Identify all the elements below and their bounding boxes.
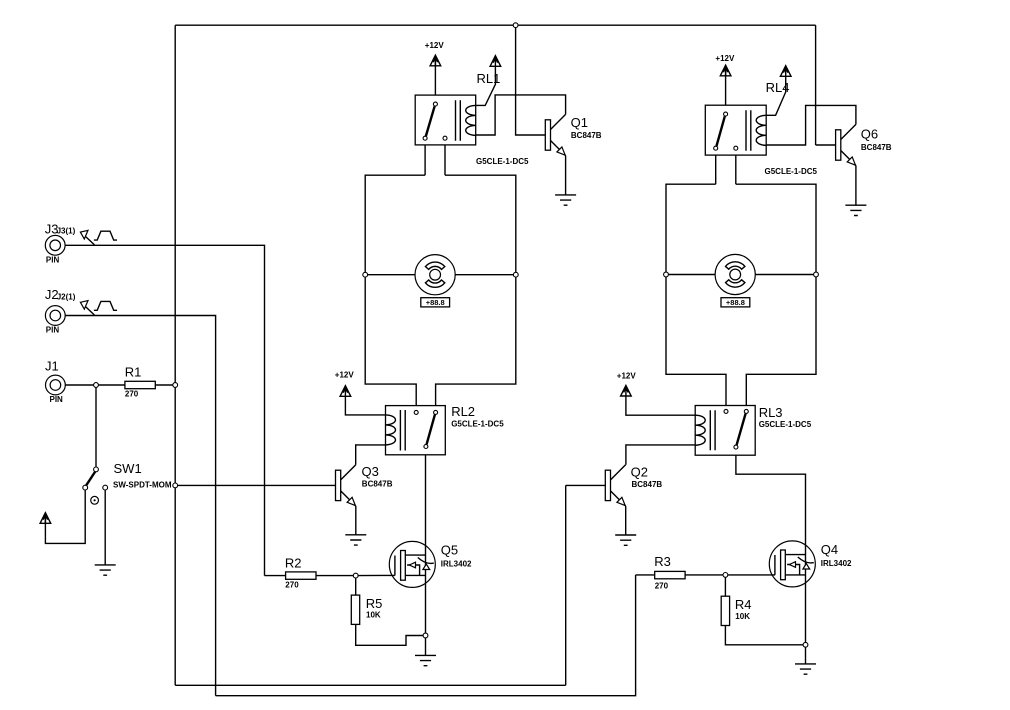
label Q4 xyxy=(821,542,852,568)
svg-text:+12V: +12V xyxy=(715,54,735,63)
wire R1 right lead xyxy=(155,384,175,386)
probe marker J2 pulse xyxy=(80,301,117,315)
ground Q3 emitter xyxy=(345,535,366,545)
resistor R2 270 xyxy=(285,555,316,589)
ground Q2 emitter xyxy=(615,535,636,545)
svg-text:Q5: Q5 xyxy=(441,543,458,558)
svg-text:J1: J1 xyxy=(45,359,59,374)
wire RL1 pole A stub xyxy=(424,141,426,176)
svg-text:+88.8: +88.8 xyxy=(426,298,445,307)
transistor Q3 BC847B xyxy=(336,464,393,506)
svg-text:+12V: +12V xyxy=(617,371,637,380)
svg-text:Q1: Q1 xyxy=(571,115,588,130)
svg-text:+88.8: +88.8 xyxy=(726,298,745,307)
wire RL2 coil to +12V xyxy=(345,396,385,415)
wire motor1 left branch xyxy=(365,175,425,410)
ground Q4 source xyxy=(795,664,816,674)
wire SW1 throw to power xyxy=(45,490,85,544)
resistor R1 270 xyxy=(125,364,156,398)
relay RL4 G5CLE-1-DC5 xyxy=(705,80,817,176)
wire Q1 emitter to ground xyxy=(565,156,567,195)
wire Q2 emitter to ground xyxy=(625,506,627,535)
power +12V arrow RL1 pole xyxy=(430,55,441,66)
wire J1 node to SW1 xyxy=(95,385,97,467)
svg-text:RL4: RL4 xyxy=(766,80,790,95)
svg-text:10K: 10K xyxy=(735,612,750,621)
wire R3 left lead xyxy=(636,574,655,576)
wire RL1 coil to VCC xyxy=(476,66,496,105)
wire RL1 pole to +12V xyxy=(434,56,436,102)
svg-text:270: 270 xyxy=(655,582,669,591)
wire RL2 coil to Q3 collector xyxy=(356,445,386,465)
wire J3 to R2 xyxy=(65,245,264,575)
power arrow RL1 coil xyxy=(490,56,501,67)
svg-text:SW1: SW1 xyxy=(114,461,142,476)
node motor1 right xyxy=(513,272,518,277)
wire J2 drop xyxy=(65,316,215,696)
wire Q6 base drop xyxy=(815,25,817,145)
node Q4 source / R4 xyxy=(803,642,808,647)
wire bottom bus B xyxy=(216,575,636,696)
ground SW1 xyxy=(95,565,116,575)
switch SW1 SW-SPDT-MOM xyxy=(83,461,172,504)
wire R5 bottom to Q5 source xyxy=(356,624,426,645)
wire R3 right lead xyxy=(685,574,725,576)
wire Q5 gate xyxy=(356,574,395,576)
wire motor1 right stub xyxy=(455,274,516,276)
svg-text:BC847B: BC847B xyxy=(362,480,393,489)
svg-text:IRL3402: IRL3402 xyxy=(441,559,472,568)
wire left bus vertical xyxy=(174,25,176,685)
wire motor1 left stub xyxy=(365,274,415,276)
svg-text:10K: 10K xyxy=(366,610,381,619)
svg-text:R2: R2 xyxy=(285,555,302,570)
transistor Q5 IRL3402 mosfet xyxy=(389,541,435,587)
wire motor2 left branch xyxy=(666,184,726,409)
connector J3 PIN xyxy=(45,222,76,265)
svg-text:Q2: Q2 xyxy=(631,465,648,480)
transistor Q4 IRL3402 mosfet xyxy=(769,541,815,587)
node motor2 left xyxy=(664,272,669,277)
power +12V arrow RL3 coil xyxy=(621,385,632,396)
wire Q2 base xyxy=(566,484,606,486)
svg-text:Q3: Q3 xyxy=(362,464,379,479)
probe marker J3 pulse xyxy=(80,230,117,244)
wire RL4 pole A stub xyxy=(715,151,717,185)
node Q4 gate / R4 xyxy=(723,573,728,578)
svg-text:RL1: RL1 xyxy=(477,71,501,86)
resistor R5 10K xyxy=(351,595,382,624)
relay RL3 G5CLE-1-DC5 xyxy=(695,405,812,455)
wire RL3 coil to +12V xyxy=(626,396,695,415)
wire J1 to R1 xyxy=(65,384,125,386)
ground Q1 emitter xyxy=(555,195,576,205)
svg-text:Q6: Q6 xyxy=(861,127,878,142)
svg-text:R1: R1 xyxy=(125,364,142,379)
svg-text:+12V: +12V xyxy=(425,41,445,50)
wire bottom bus A xyxy=(175,684,566,686)
node J1/R1/SW1 xyxy=(94,383,99,388)
svg-text:270: 270 xyxy=(285,581,299,590)
power +12V arrow RL4 pole xyxy=(720,65,731,76)
svg-text:J3(1): J3(1) xyxy=(57,227,76,236)
svg-text:Q4: Q4 xyxy=(821,542,838,557)
motor M2 xyxy=(715,254,755,294)
wire RL1 coil to Q1 collector xyxy=(476,95,566,135)
svg-text:270: 270 xyxy=(125,390,139,399)
wire Q6 emitter to ground xyxy=(855,166,857,206)
wire Q2 base riser xyxy=(565,485,567,685)
connector J2 PIN xyxy=(45,287,76,334)
wire RL4 pole B stub xyxy=(735,151,737,185)
svg-text:G5CLE-1-DC5: G5CLE-1-DC5 xyxy=(759,420,812,429)
svg-text:+12V: +12V xyxy=(335,371,355,380)
wire SW1 throw to ground xyxy=(104,490,106,565)
svg-text:J2(1): J2(1) xyxy=(57,292,76,301)
wire base bus to Q3 xyxy=(175,484,335,486)
transistor Q6 BC847B xyxy=(836,124,892,165)
wire motor2 right branch xyxy=(736,184,816,409)
node Q5 source / R5 xyxy=(423,633,428,638)
svg-text:PIN: PIN xyxy=(50,395,64,404)
wire Q6 base xyxy=(816,144,836,146)
wire R4 bottom to Q4 source xyxy=(725,625,805,645)
motor M1 xyxy=(415,255,455,295)
wire RL3 common to Q4 drain/source xyxy=(736,449,806,664)
svg-text:BC847B: BC847B xyxy=(571,131,602,140)
svg-text:SW-SPDT-MOM: SW-SPDT-MOM xyxy=(113,480,172,489)
power arrow SW1 throw xyxy=(40,513,51,524)
wire R2 left lead xyxy=(265,575,286,577)
svg-text:BC847B: BC847B xyxy=(632,480,663,489)
svg-text:R3: R3 xyxy=(654,554,671,569)
label Q5 xyxy=(441,543,472,569)
node base bus tap xyxy=(173,483,178,488)
wire RL4 coil to Q6 collector xyxy=(766,105,856,145)
power +12V arrow RL2 coil xyxy=(340,386,351,397)
svg-text:G5CLE-1-DC5: G5CLE-1-DC5 xyxy=(451,420,504,429)
transistor Q1 BC847B xyxy=(545,114,602,155)
svg-text:RL3: RL3 xyxy=(759,405,783,420)
wire R2 right lead xyxy=(316,575,356,577)
node motor1 left xyxy=(363,272,368,277)
wire RL4 pole to +12V xyxy=(725,66,727,112)
wire R5 top lead xyxy=(355,576,357,596)
connector J1 PIN xyxy=(45,359,65,405)
ground Q5 source xyxy=(415,655,436,665)
wire top bus xyxy=(175,24,815,26)
wire RL4 coil to VCC xyxy=(766,76,786,115)
svg-text:IRL3402: IRL3402 xyxy=(821,559,852,568)
node R1 to bus xyxy=(173,383,178,388)
wire Q4 gate xyxy=(725,574,775,576)
wire Q1 base drop xyxy=(516,25,546,135)
relay RL1 G5CLE-1-DC5 xyxy=(415,71,529,166)
node Q5 gate / R5 xyxy=(353,573,358,578)
wire RL2 common to Q5 drain/source xyxy=(425,449,427,656)
meter M1 +88.8 xyxy=(421,298,450,307)
svg-text:G5CLE-1-DC5: G5CLE-1-DC5 xyxy=(765,167,818,176)
svg-text:G5CLE-1-DC5: G5CLE-1-DC5 xyxy=(476,157,529,166)
node motor2 right xyxy=(814,272,819,277)
svg-text:PIN: PIN xyxy=(46,326,60,335)
resistor R3 270 xyxy=(654,554,685,591)
ground Q6 emitter xyxy=(845,205,866,215)
power arrow RL4 coil xyxy=(780,66,791,77)
relay RL2 G5CLE-1-DC5 xyxy=(386,404,505,455)
svg-text:BC847B: BC847B xyxy=(861,143,892,152)
wire Q3 emitter to ground xyxy=(355,506,357,535)
resistor R4 10K xyxy=(721,596,751,625)
wire R4 top lead xyxy=(724,575,726,596)
wire motor1 right branch xyxy=(436,175,516,410)
svg-text:PIN: PIN xyxy=(46,255,60,264)
svg-text:RL2: RL2 xyxy=(451,404,475,419)
svg-text:R5: R5 xyxy=(366,596,383,611)
wire RL1 pole B stub xyxy=(444,141,446,176)
wire motor2 left stub xyxy=(666,274,715,276)
node top bus tap xyxy=(513,23,518,28)
transistor Q2 BC847B xyxy=(605,465,662,506)
wire motor2 right stub xyxy=(755,274,816,276)
meter M2 +88.8 xyxy=(721,298,750,307)
wire RL3 coil to Q2 collector xyxy=(626,445,695,465)
svg-text:R4: R4 xyxy=(735,597,752,612)
